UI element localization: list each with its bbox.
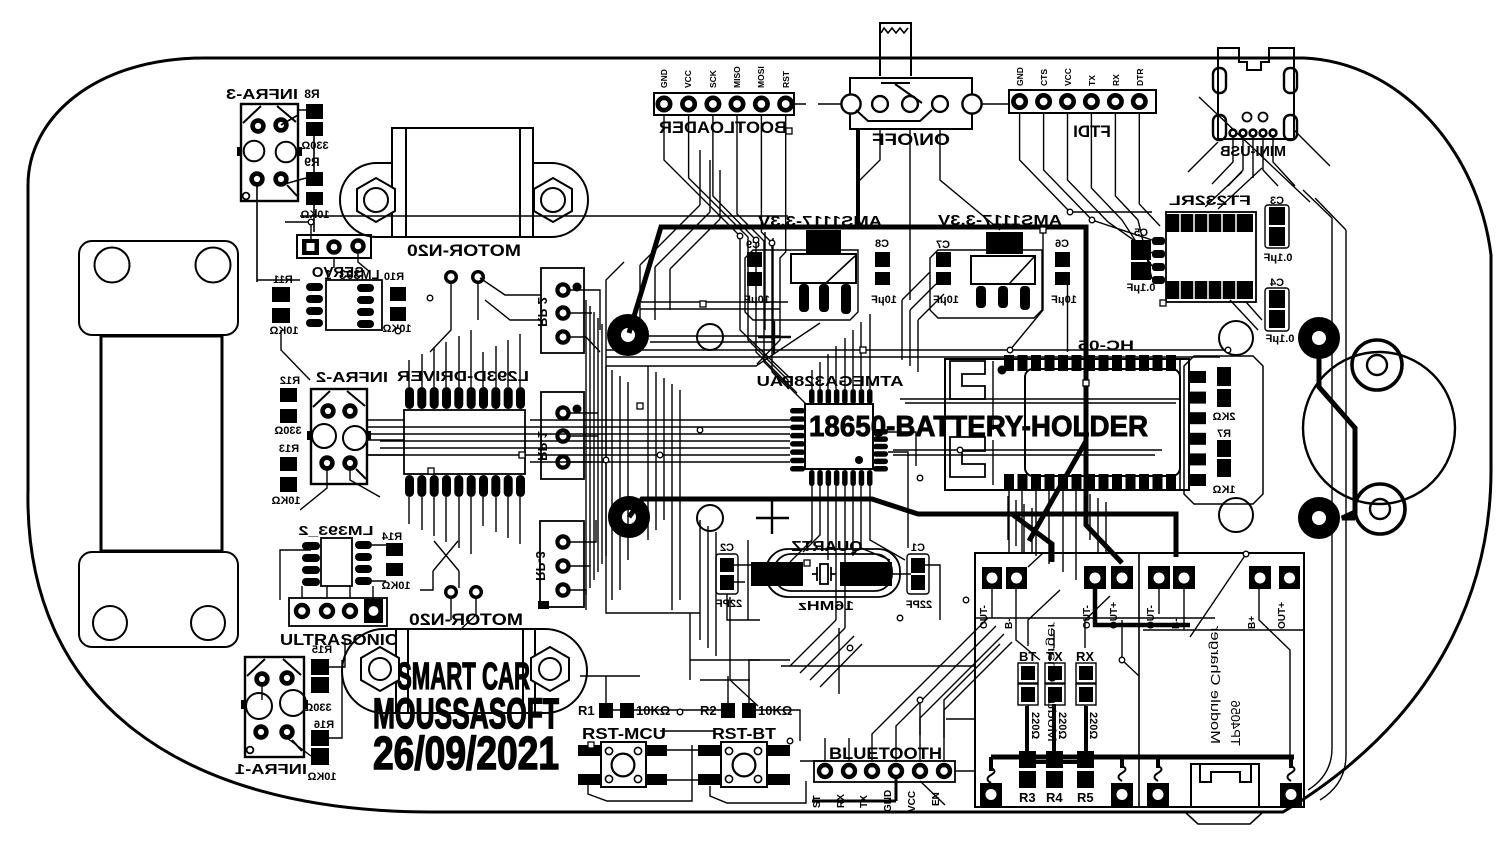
svg-text:C8: C8 (875, 238, 889, 250)
connector MINI-USB body (1218, 48, 1294, 139)
motor body inner lines (408, 629, 523, 713)
svg-text:INFRA-2: INFRA-2 (316, 370, 388, 386)
INFRA-2 lens (343, 426, 367, 450)
LM393-2 right pads (355, 541, 372, 585)
resistor R8 pad (306, 122, 323, 136)
BLUETOOTH pin VCC (914, 765, 926, 777)
ON/OFF pin (841, 94, 860, 113)
wire bundle bootloader to mcu (664, 115, 790, 378)
right side region outline (1303, 190, 1346, 800)
U3 leg (1020, 286, 1030, 310)
header BOOTLOADER box (654, 93, 794, 115)
svg-text:RST-BT: RST-BT (712, 726, 776, 743)
IC FT232RL body (1166, 212, 1256, 302)
capacitor C6 pads (1055, 252, 1070, 267)
wire infra1 (262, 640, 345, 756)
svg-text:0.1μF: 0.1μF (1126, 282, 1155, 294)
ON/OFF pin (962, 94, 981, 113)
ATMEGA left pads (790, 408, 805, 472)
wire infra3 to lm393 (257, 280, 310, 380)
battery holder outline (945, 359, 1189, 490)
charger region outline (975, 553, 1304, 807)
bracket hole (191, 606, 225, 640)
mounting hole (1219, 498, 1253, 532)
svg-text:220Ω: 220Ω (1056, 712, 1068, 739)
svg-text:R13: R13 (279, 443, 299, 455)
FT232RL bottom pad bar (1166, 281, 1253, 299)
coil squiggle 1 (988, 768, 995, 783)
svg-text:Module Charger: Module Charger (1208, 625, 1223, 744)
U2 leg (841, 284, 851, 314)
pour outline center (606, 262, 820, 613)
svg-text:10KΩ: 10KΩ (307, 771, 336, 783)
svg-text:RST-MCU: RST-MCU (582, 726, 666, 743)
IR3 pin pad (276, 120, 287, 131)
BOOTLOADER pin 4 (731, 98, 743, 110)
ULTRASONIC pin (296, 605, 308, 617)
svg-text:10KΩ: 10KΩ (300, 209, 329, 221)
RP-3 pin (557, 536, 568, 547)
charger pad hole 3 (1147, 783, 1169, 806)
wheel hub ring (1352, 340, 1402, 390)
cross mark (756, 501, 789, 534)
FT232RL left pads (1152, 237, 1165, 284)
svg-text:TX: TX (1087, 75, 1097, 86)
capacitor C5 pads (1131, 240, 1151, 260)
FTDI pin DTR (1133, 95, 1145, 107)
wire servo (285, 222, 370, 272)
L293D bottom pads (405, 475, 525, 497)
svg-text:10μF: 10μF (871, 294, 897, 306)
MINI-USB hole (1243, 113, 1252, 122)
motor bottom body (396, 629, 535, 713)
svg-text:10KΩ: 10KΩ (381, 580, 410, 592)
svg-text:R8: R8 (304, 87, 320, 101)
wire holder horizontals (893, 361, 1180, 485)
hole center (697, 505, 723, 531)
INFRA-2 pad (322, 458, 333, 469)
resistor R8 pad (306, 104, 323, 119)
opamp LM393-2 body (321, 538, 352, 586)
ATMEGA right pads (873, 429, 888, 472)
capacitor C1 outline (907, 554, 929, 594)
charger region divider (1139, 553, 1304, 807)
IR3 pin pad (253, 121, 264, 132)
long signal pair (606, 302, 1228, 357)
svg-text:GND: GND (1015, 67, 1025, 86)
svg-text:INFRA-3: INFRA-3 (226, 87, 298, 103)
svg-text:INFRA-1: INFRA-1 (235, 762, 307, 778)
capacitor C8 pads (875, 252, 890, 267)
BOOTLOADER pin 1 (658, 98, 670, 110)
wire crossover motor2 (420, 541, 459, 590)
BOOTLOADER pin 2 (682, 98, 694, 110)
U3 body diagonal (1009, 257, 1034, 284)
long trace through motor (300, 209, 788, 216)
wire l293d top stubs (409, 330, 520, 387)
svg-text:ON/OFF: ON/OFF (872, 130, 950, 149)
resistor R3 pads (1019, 751, 1036, 768)
resistor R1 pads (599, 703, 613, 718)
R7 area chamfered outline (1184, 356, 1263, 504)
thick diagonal branch (1029, 441, 1086, 541)
wire ftdi vcc long (1010, 230, 1068, 352)
MINI-USB pad (1213, 68, 1226, 93)
battery connector wires (880, 23, 911, 76)
wheel hub inner (1367, 355, 1387, 375)
micro-usb below edge (1186, 813, 1262, 824)
svg-text:EN: EN (931, 792, 942, 806)
hole center (697, 324, 723, 350)
IR3 pin pad (276, 174, 287, 185)
LM393-1 left pads (306, 283, 323, 327)
svg-text:0.1μF: 0.1μF (1265, 333, 1294, 345)
resistor R13 pads (280, 457, 297, 471)
BLUETOOTH pin RX (843, 765, 855, 777)
resistor-pack RP-3 box (540, 521, 584, 607)
INFRA-2 pad (345, 458, 356, 469)
BLUETOOTH pin TX (866, 765, 878, 777)
mcu left bus (368, 420, 790, 462)
svg-text:220Ω: 220Ω (1087, 712, 1099, 739)
junction squares (428, 128, 1166, 748)
IR3 pin pad (252, 174, 263, 185)
servo square pad (302, 239, 319, 255)
svg-text:10KΩ: 10KΩ (271, 495, 300, 507)
IC ATMEGA328 body (805, 404, 873, 469)
capacitor C3 pads (1269, 207, 1285, 225)
resistor R4 pads (1046, 751, 1063, 768)
wire IR3 pads (257, 110, 314, 282)
resistor R11 pad (272, 308, 290, 323)
RP-3 corner mark (538, 601, 549, 609)
svg-text:R15: R15 (312, 644, 332, 656)
RP-2 pin (557, 331, 568, 342)
RP-3 pin (557, 560, 568, 571)
ON/OFF pin (902, 96, 918, 112)
junction rings (308, 209, 1249, 744)
ATMEGA top pads (809, 389, 873, 404)
IC L293D body (404, 410, 525, 474)
svg-text:0.1μF: 0.1μF (1263, 252, 1292, 264)
switch lever (856, 83, 932, 121)
FT232RL top pad bar (1166, 214, 1253, 232)
RP-2 dot (573, 283, 582, 292)
svg-text:18650-BATTERY-HOLDER: 18650-BATTERY-HOLDER (809, 411, 1148, 443)
svg-text:VCC: VCC (1063, 68, 1073, 86)
wire infra2 (300, 440, 404, 510)
resistor R14 pads (386, 543, 403, 556)
svg-text:MISO: MISO (732, 66, 742, 88)
wire rp2 to motor vias (430, 278, 541, 630)
opamp LM393-1 body (326, 280, 382, 330)
wire mini-usb pins (1188, 97, 1330, 202)
motor body inner lines (406, 128, 520, 237)
motor shaft hole (369, 658, 391, 680)
wheel left (101, 336, 222, 551)
svg-text:C2: C2 (720, 542, 734, 554)
crystal symbol (812, 567, 836, 581)
crystal pad left (751, 562, 803, 586)
cross mark (758, 321, 791, 354)
via donut (1305, 504, 1333, 532)
svg-text:R14: R14 (381, 531, 402, 543)
RST-MCU corner holes (605, 747, 641, 782)
svg-text:26/09/2021: 26/09/2021 (373, 727, 559, 779)
svg-text:RST: RST (781, 70, 791, 88)
capacitor C3 outline (1265, 205, 1289, 248)
servo pin (329, 242, 340, 253)
resistor R5 pads (1077, 751, 1094, 768)
LED RX pads (1076, 663, 1096, 683)
INFRA-2 side tabs (307, 431, 312, 440)
HC-05 right pad column (1190, 371, 1206, 486)
charger pad hole 4 (1280, 783, 1302, 806)
wire charger left (975, 553, 1215, 660)
battery spring contact bottom (950, 437, 985, 477)
battery holder right double line (1179, 359, 1181, 490)
capacitor C4 outline (1265, 288, 1289, 331)
wire bundle hc05 to bluetooth (800, 618, 1012, 761)
INFRA-1 pad (257, 674, 268, 685)
ULTRASONIC pin (321, 605, 333, 617)
resistor R9 pad (306, 192, 323, 205)
bracket hole (196, 248, 231, 283)
resistor pads 2K (1217, 367, 1231, 386)
via donut left (614, 321, 642, 349)
svg-text:B+: B+ (1247, 616, 1258, 629)
svg-text:1KΩ: 1KΩ (1212, 484, 1235, 496)
pad OUT+ (1111, 566, 1133, 589)
svg-text:C1: C1 (911, 542, 925, 554)
thick branch (1012, 514, 1052, 562)
pad OUT+ (1279, 566, 1300, 589)
IR3 side tabs (237, 147, 242, 156)
svg-text:C4: C4 (1269, 277, 1284, 289)
pad OUT- (1084, 566, 1106, 589)
wire rst outline (588, 745, 806, 803)
FTDI pin GND (1013, 95, 1025, 107)
battery spring contact top (950, 361, 985, 399)
module HC-05 body (1025, 369, 1180, 476)
wheel hub ring (1355, 484, 1405, 534)
resistor R2 pads (721, 703, 735, 718)
wire rp3 (569, 520, 596, 610)
BOOTLOADER pin 3 (707, 98, 719, 110)
svg-text:L293D-DRIVER: L293D-DRIVER (397, 368, 529, 385)
via donut left (615, 503, 643, 531)
crystal outer outline (766, 549, 900, 597)
wheel circle (1303, 352, 1455, 504)
svg-text:C7: C7 (936, 239, 950, 251)
svg-text:R10: R10 (384, 271, 404, 283)
motor shaft hole (364, 188, 388, 212)
RP-2 pin (557, 307, 568, 318)
resistor R7 pads (1217, 440, 1231, 457)
svg-text:330Ω: 330Ω (304, 702, 331, 714)
regulator U2 body (791, 254, 856, 283)
IR3 lens circle (276, 142, 297, 163)
via motor top pair (446, 272, 484, 598)
RP-1 pin (557, 430, 568, 441)
svg-text:RX: RX (1111, 74, 1121, 86)
wire mid verticals (690, 432, 974, 719)
svg-text:R5: R5 (1077, 790, 1094, 805)
thick power trace T1 (629, 227, 1122, 563)
regulator U2 tab (806, 230, 841, 254)
button RST-MCU body (601, 742, 646, 787)
INFRA-2 lens (312, 424, 336, 448)
charger pad hole 2 (1111, 783, 1133, 806)
bracket hole (95, 248, 130, 283)
button RST-BT body (721, 742, 767, 787)
ATMEGA pin1 dot (855, 456, 863, 464)
pad OUT- (982, 567, 1002, 589)
RP-1 dot (573, 405, 582, 414)
svg-text:22PF: 22PF (716, 598, 743, 610)
photo-interrupter INFRA-2 body (311, 389, 367, 484)
U2 body diagonal (826, 256, 855, 283)
INFRA-1 pad (256, 727, 267, 738)
LED TX pads (1045, 663, 1065, 683)
RST-MCU plunger (612, 754, 635, 777)
wire lm393-2 to ultrasonic (280, 545, 386, 600)
wire tp4056 (1122, 554, 1290, 757)
U2 leg (799, 284, 809, 312)
wire bt region (920, 644, 1000, 771)
photo-interrupter U-IR3 body (241, 104, 298, 201)
wire vertical bundle right of RPs (586, 300, 606, 595)
capacitor C7 pads (936, 252, 951, 267)
svg-text:TX: TX (1046, 649, 1063, 664)
wire infra2 to driver (367, 420, 404, 455)
capacitor C9 pads (747, 252, 762, 267)
svg-text:DTR: DTR (1135, 69, 1145, 86)
battery zigzag symbol (881, 28, 908, 33)
wire vcc diag (920, 781, 945, 805)
INFRA-2 pad (345, 406, 356, 417)
RP-2 pin (557, 284, 568, 295)
header BLUETOOTH box (814, 761, 955, 782)
capacitor C2 pads (720, 558, 734, 572)
quartz wires (727, 565, 940, 620)
U2 leg (819, 284, 829, 312)
ULTRASONIC square pad (364, 599, 383, 623)
motor top body (392, 128, 533, 237)
MINI-USB pad (1284, 68, 1297, 93)
svg-text:R7: R7 (1217, 428, 1231, 440)
motor bracket bottom-left (79, 552, 238, 647)
resistor R16 pads (311, 730, 329, 746)
INFRA-1 pad (282, 727, 293, 738)
photo-interrupter INFRA-1 body (245, 657, 304, 757)
servo header box (297, 235, 371, 258)
wire bundle ftdi to ft232 (1020, 113, 1152, 212)
IR3 lens circle (244, 141, 265, 162)
LED BT pads (1018, 663, 1038, 683)
INFRA-2 corner diagonals (313, 391, 366, 479)
svg-text:10KΩ: 10KΩ (269, 325, 298, 337)
wire r1 r2 line (613, 710, 800, 741)
wire rp2 (569, 290, 600, 352)
BOOTLOADER pin 6 (780, 98, 792, 110)
svg-text:B-: B- (1004, 618, 1015, 629)
svg-text:VCC: VCC (683, 70, 693, 88)
svg-text:RX: RX (1076, 649, 1094, 664)
thick charge bus (991, 755, 1294, 760)
svg-text:TP4056: TP4056 (1228, 700, 1243, 746)
coil squiggle 3 (1155, 766, 1162, 781)
ATMEGA bottom pads (809, 470, 873, 486)
resistor R9 pad (306, 172, 323, 186)
motor hex nut right (531, 647, 569, 691)
LM393-1 right pads (357, 284, 374, 328)
thick power trace T2 (629, 499, 1176, 557)
MINI-USB pad (1213, 115, 1226, 140)
resistor R12 pads (280, 388, 297, 402)
wheel hub inner (1370, 499, 1390, 519)
svg-text:R9: R9 (304, 155, 320, 169)
resistor R10 pad (390, 287, 406, 301)
resistor-pack RP-2 box (541, 268, 584, 353)
svg-text:VCC: VCC (907, 791, 918, 812)
coil squiggle 4 (1288, 766, 1295, 781)
motor top bracket stadium (340, 163, 588, 237)
BOOTLOADER pin 5 (755, 98, 767, 110)
motor hex nut left (357, 178, 395, 222)
INFRA-1 side tabs (241, 700, 246, 709)
motor hex nut left (361, 647, 399, 691)
svg-text:10μF: 10μF (1051, 294, 1077, 306)
RST-BT plunger (733, 754, 756, 777)
svg-text:R12: R12 (280, 375, 300, 387)
svg-text:QUARTZ: QUARTZ (792, 538, 863, 555)
thick switch feed (856, 129, 860, 227)
svg-text:FT232RL: FT232RL (1168, 192, 1251, 208)
svg-text:GND: GND (659, 69, 669, 88)
svg-text:LM393_2: LM393_2 (299, 523, 374, 538)
charger pad hole 1 (980, 783, 1002, 806)
RST-BT corner holes (725, 747, 761, 782)
button RST-BT pads (698, 745, 790, 785)
copper pour outline U3 (930, 250, 1042, 318)
svg-text:RP-2: RP-2 (535, 297, 550, 327)
servo pin (353, 241, 364, 252)
resistor R10 pad (390, 307, 406, 321)
L293D top pads (405, 387, 525, 409)
FTDI pin CTS (1037, 95, 1049, 107)
svg-text:10μF: 10μF (933, 294, 959, 306)
IR3 index hole (243, 193, 250, 200)
thick out trace (1095, 589, 1190, 625)
via donut (1305, 324, 1333, 352)
thick trace right wheel (1319, 350, 1355, 518)
button RST-MCU pads (578, 745, 667, 785)
mounting hole (1219, 321, 1253, 355)
svg-text:BOOTLOADER: BOOTLOADER (659, 118, 787, 137)
INFRA-1 corner diagonals (247, 659, 302, 751)
thick bus drops (991, 704, 1291, 771)
IR3 corner diagonal (243, 106, 297, 196)
pad OUT- (1148, 566, 1170, 589)
BLUETOOTH pin ST (819, 765, 831, 777)
pad B- (1173, 566, 1195, 589)
svg-text:R4: R4 (1046, 790, 1063, 805)
BLUETOOTH pin GND (890, 765, 902, 777)
ON/OFF pin (872, 96, 888, 112)
capacitor C4 pads (1269, 290, 1285, 308)
INFRA-1 index hole (247, 747, 254, 754)
